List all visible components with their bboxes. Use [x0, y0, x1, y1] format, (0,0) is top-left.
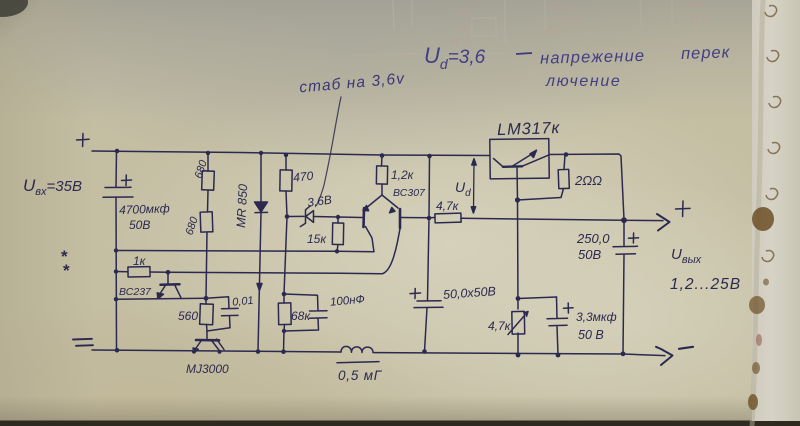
wire U1 adj down	[516, 167, 519, 200]
annotation dash	[516, 53, 532, 54]
page torn edge seam	[752, 0, 763, 426]
svg-text:4700мкф: 4700мкф	[119, 201, 170, 217]
resistor R4 470	[286, 155, 287, 217]
plus label top output	[676, 201, 691, 217]
svg-text:ВС237: ВС237	[119, 286, 152, 298]
svg-text:4,7к: 4,7к	[436, 199, 460, 213]
svg-text:1,2...25В: 1,2...25В	[670, 276, 741, 293]
capacitor C1 plus mark	[122, 175, 132, 186]
svg-text:MR 850: MR 850	[234, 184, 250, 228]
svg-text:4,7к: 4,7к	[488, 319, 512, 333]
svg-text:КЕТ: КЕТ	[544, 25, 561, 35]
U1 inner transistor symbol	[503, 165, 522, 168]
transistor Q1 Q2 BC307 pair	[368, 195, 398, 208]
IC U1 LM317K box	[490, 139, 549, 179]
svg-text:0,5 мГ: 0,5 мГ	[338, 368, 383, 383]
wire y272 to Q BC307 emitter curve	[168, 229, 400, 274]
svg-text:50 В: 50 В	[578, 328, 604, 342]
wire 470 column down to 68k node	[284, 217, 287, 295]
wire Q2 collector to out	[400, 217, 429, 219]
output arrow top	[657, 214, 670, 231]
capacitor C6 0,01	[206, 297, 238, 331]
wire y299 BC237 emitter line	[116, 297, 206, 300]
wire top rail	[92, 151, 624, 220]
wire zener to base	[338, 216, 362, 219]
capacitor C2 50,0x50В	[414, 301, 443, 308]
wire adj to R8	[518, 189, 564, 201]
ghost bleed-through top	[350, 0, 707, 55]
capacitor C5 plus mark	[629, 233, 639, 243]
output arrow bottom	[656, 347, 673, 365]
svg-text:470: 470	[293, 169, 315, 185]
potentiometer R9 4,7k	[512, 311, 525, 334]
minus terminal input	[73, 339, 93, 346]
resistor R 1k body	[128, 267, 150, 277]
svg-text:ЕЗ СЧ: ЕЗ СЧ	[556, 14, 582, 24]
svg-text:0,01: 0,01	[232, 295, 255, 309]
capacitor C4 3,3мкФ	[547, 297, 568, 355]
inductor L1 0,5мГ	[341, 346, 373, 352]
svg-text:напрежение: напрежение	[540, 47, 646, 68]
wire column x429 from top rail	[428, 156, 430, 300]
resistor R6 1,2k	[381, 156, 384, 196]
arrowhead on wire x259	[257, 284, 262, 291]
resistor R2 680 upper	[207, 153, 210, 212]
svg-text:перек: перек	[681, 43, 731, 63]
minus label bottom output	[679, 347, 693, 349]
svg-text:15к: 15к	[307, 232, 327, 246]
annotation pointer line стаб	[317, 97, 342, 206]
wire node to C4	[518, 297, 557, 299]
svg-text:LM317к: LM317к	[497, 119, 561, 139]
svg-text:3,3мкф: 3,3мкф	[576, 310, 617, 324]
resistor R3 680 lower	[200, 212, 213, 232]
svg-text:КЕТЧ: КЕТЧ	[450, 37, 473, 47]
svg-text:50В: 50В	[129, 218, 150, 232]
svg-text:250,0: 250,0	[576, 231, 610, 246]
capacitor C7 100нФ	[284, 294, 327, 331]
wire 680 column down to node	[206, 232, 207, 298]
svg-text:лючение: лючение	[545, 73, 621, 90]
svg-text:68к: 68к	[291, 309, 311, 323]
svg-text:Ud=3,6: Ud=3,6	[424, 43, 486, 72]
transistor Q3 MJ3000	[206, 331, 208, 339]
svg-text:КЕТ: КЕТ	[456, 6, 473, 16]
capacitor C4 plus mark	[564, 303, 574, 313]
wire MR850 column down	[258, 213, 261, 352]
transistor Q4 BC237	[167, 272, 169, 283]
svg-text:Uвх=35В: Uвх=35В	[23, 176, 82, 198]
wire left bus	[115, 151, 118, 351]
svg-text:560: 560	[178, 309, 198, 323]
torn edge curls right	[762, 6, 781, 262]
svg-text:1,2к: 1,2к	[391, 168, 415, 182]
zener VD 3,6В	[287, 206, 338, 227]
svg-text:ВС307: ВС307	[393, 187, 426, 199]
wire column x517 down	[517, 200, 520, 309]
inductor underline	[337, 362, 379, 363]
svg-text:ЛЧА: ЛЧА	[686, 1, 704, 11]
svg-text:50В: 50В	[578, 247, 601, 262]
diode MR850	[260, 153, 262, 202]
capacitor C2 plus mark	[410, 289, 421, 299]
resistor R10 560	[206, 298, 207, 331]
wire 68k node to bottom rail	[283, 331, 286, 352]
svg-text:ЕЗЧ: ЕЗЧ	[452, 23, 469, 33]
plus terminal input	[77, 134, 90, 147]
resistor R11 68k	[283, 294, 286, 331]
svg-text:*: *	[63, 261, 70, 280]
svg-text:КЕТ: КЕТ	[690, 14, 707, 24]
capacitor C5 250,0	[613, 220, 638, 354]
wire bottom rail	[92, 350, 665, 356]
svg-text:2ΩΩ: 2ΩΩ	[574, 173, 602, 188]
capacitor C1 4700мкФ plates	[103, 187, 133, 197]
dimension arrow Ud	[473, 162, 476, 210]
wire mid rail y251 to Q1 collector	[116, 227, 374, 252]
resistor R7 4,7k horizontal	[435, 213, 461, 223]
node dots	[114, 149, 627, 358]
svg-text:1к: 1к	[133, 254, 147, 268]
svg-text:MJ3000: MJ3000	[186, 362, 229, 376]
wire rail y272 through R 1k	[116, 271, 168, 274]
resistor R8 220	[558, 169, 569, 188]
svg-text:ЛАЗ ГЧ: ЛАЗ ГЧ	[548, 2, 579, 12]
resistor R5 15k	[337, 217, 338, 251]
